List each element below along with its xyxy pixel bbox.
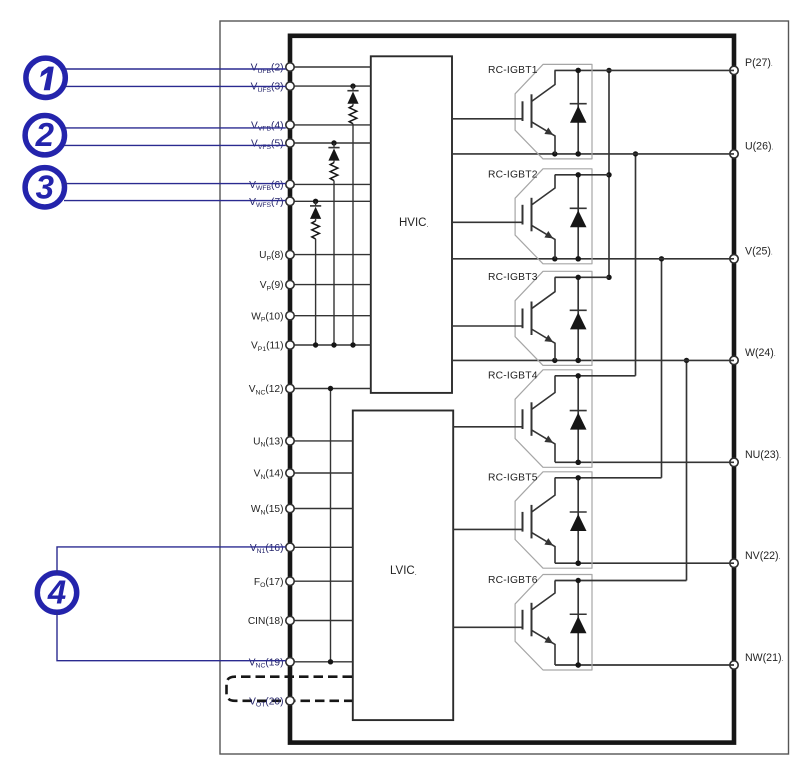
wire callout2 to pin4 [64, 127, 286, 129]
svg-text:VP(9): VP(9) [260, 280, 284, 292]
pin 7 VWFS(7) [249, 197, 371, 209]
bootstrap diode+resistor W phase [310, 199, 321, 348]
svg-text:UP(8): UP(8) [259, 250, 283, 262]
callout 4 [37, 573, 76, 612]
svg-text:RC-IGBT1: RC-IGBT1 [488, 65, 538, 76]
callout 3 [25, 168, 64, 207]
svg-text:RC-IGBT2: RC-IGBT2 [488, 169, 538, 180]
svg-text:U(26).: U(26). [745, 141, 774, 153]
transistor RC-IGBT3 (IGBT + diode) [452, 271, 609, 365]
wire callout3 to pin6 [64, 183, 286, 185]
wire P rail [555, 68, 735, 73]
callout 1 [26, 58, 65, 97]
pin 4 VVFB(4) [251, 121, 371, 133]
svg-text:VN1(16): VN1(16) [250, 543, 284, 555]
pin 24 W(24) [730, 347, 776, 364]
wire callout4 to pin16 [57, 547, 286, 574]
wire U rail [452, 151, 734, 156]
svg-text:2: 2 [35, 116, 55, 153]
outer frame [220, 21, 789, 754]
pin 13 UN(13) [253, 437, 353, 449]
transistor RC-IGBT5 (IGBT + diode) [453, 472, 661, 568]
pin 25 V(25) [730, 246, 773, 263]
svg-text:VN(14): VN(14) [254, 469, 284, 481]
pin 27 P(27) [730, 57, 773, 74]
pin 11 VP1(11) [251, 341, 371, 353]
svg-text:VP1(11): VP1(11) [251, 341, 284, 353]
wire NU rail [555, 460, 734, 465]
wire NV rail [555, 561, 734, 566]
svg-text:VNC(12): VNC(12) [249, 384, 284, 396]
pin 12 VNC(12) [249, 384, 371, 396]
pin 21 NW(21) [730, 652, 784, 669]
svg-text:W(24).: W(24). [745, 347, 776, 359]
svg-text:V(25).: V(25). [745, 246, 773, 258]
svg-text:RC-IGBT6: RC-IGBT6 [488, 575, 538, 586]
pin 20 VOT(20) [249, 696, 294, 708]
transistor RC-IGBT4 (IGBT + diode) [453, 370, 635, 468]
wire VNC(12) to VNC(19) [328, 386, 333, 665]
svg-text:WN(15): WN(15) [251, 504, 284, 516]
wire U bus to IGBT4 collector [633, 151, 638, 376]
svg-text:RC-IGBT4: RC-IGBT4 [488, 370, 538, 381]
svg-text:NV(22).: NV(22). [745, 550, 781, 562]
svg-text:3: 3 [36, 168, 54, 205]
svg-text:P(27).: P(27). [745, 57, 773, 69]
wire callout1 to pin3 [65, 85, 286, 87]
transistor RC-IGBT6 (IGBT + diode) [453, 575, 686, 671]
pin 26 U(26) [730, 141, 774, 158]
svg-text:VOT(20): VOT(20) [249, 696, 283, 708]
pin 3 VUFS(3) [251, 82, 371, 94]
pin 19 VNC(19) [249, 657, 353, 669]
svg-text:FO(17): FO(17) [254, 577, 284, 589]
svg-text:4: 4 [47, 574, 66, 611]
pin 6 VWFB(6) [249, 180, 371, 192]
wire callout2 to pin5 [64, 144, 286, 146]
op-block HVIC [371, 56, 452, 393]
pin 9 VP(9) [260, 280, 371, 292]
package border (thick) [290, 36, 734, 743]
svg-text:VWFS(7): VWFS(7) [249, 197, 283, 209]
pin 16 VN1(16) [250, 543, 353, 555]
callout 2 [25, 116, 64, 155]
svg-text:UN(13): UN(13) [253, 437, 283, 449]
pin 23 NU(23) [730, 449, 781, 466]
pin 22 NV(22) [730, 550, 781, 567]
svg-text:HVIC.: HVIC. [399, 217, 428, 229]
svg-text:CIN(18): CIN(18) [248, 616, 284, 627]
pin 2 VUFB(2) [251, 63, 371, 75]
pin 18 CIN(18) [248, 616, 353, 627]
svg-text:NW(21).: NW(21). [745, 652, 784, 664]
transistor RC-IGBT2 (IGBT + diode) [452, 169, 609, 264]
svg-text:WP(10): WP(10) [251, 311, 283, 323]
svg-text:RC-IGBT3: RC-IGBT3 [488, 272, 538, 283]
wire callout4 to pin19 [57, 612, 286, 661]
wire V bus to IGBT5 collector [659, 256, 664, 478]
svg-text:VWFB(6): VWFB(6) [249, 180, 283, 192]
wire W bus to IGBT6 collector [684, 358, 689, 581]
wire callout1 to pin2 [65, 68, 286, 70]
svg-text:NU(23).: NU(23). [745, 449, 781, 461]
svg-text:RC-IGBT5: RC-IGBT5 [488, 472, 538, 483]
wire callout3 to pin7 [64, 200, 286, 202]
pin 15 WN(15) [251, 504, 353, 516]
wire W rail [452, 358, 734, 363]
bootstrap diode+resistor U phase [347, 83, 358, 347]
svg-text:VNC(19): VNC(19) [249, 657, 284, 669]
pin 10 WP(10) [251, 311, 371, 323]
wire V rail [452, 256, 734, 261]
transistor RC-IGBT1 (IGBT + diode) [452, 64, 592, 158]
wire P bus to IGBT2/3 collectors [606, 68, 611, 280]
bootstrap diode+resistor V phase [328, 140, 339, 347]
dashed option box VOT(20) [227, 677, 353, 701]
pin 8 UP(8) [259, 250, 371, 262]
svg-text:VUFS(3): VUFS(3) [251, 82, 284, 94]
pin 5 VVFS(5) [251, 139, 371, 151]
svg-text:VVFB(4): VVFB(4) [251, 121, 283, 133]
pin 17 FO(17) [254, 577, 353, 589]
svg-text:LVIC.: LVIC. [390, 565, 417, 577]
op-block LVIC [353, 411, 453, 721]
wire NW rail [555, 662, 734, 667]
pin 14 VN(14) [254, 469, 353, 481]
